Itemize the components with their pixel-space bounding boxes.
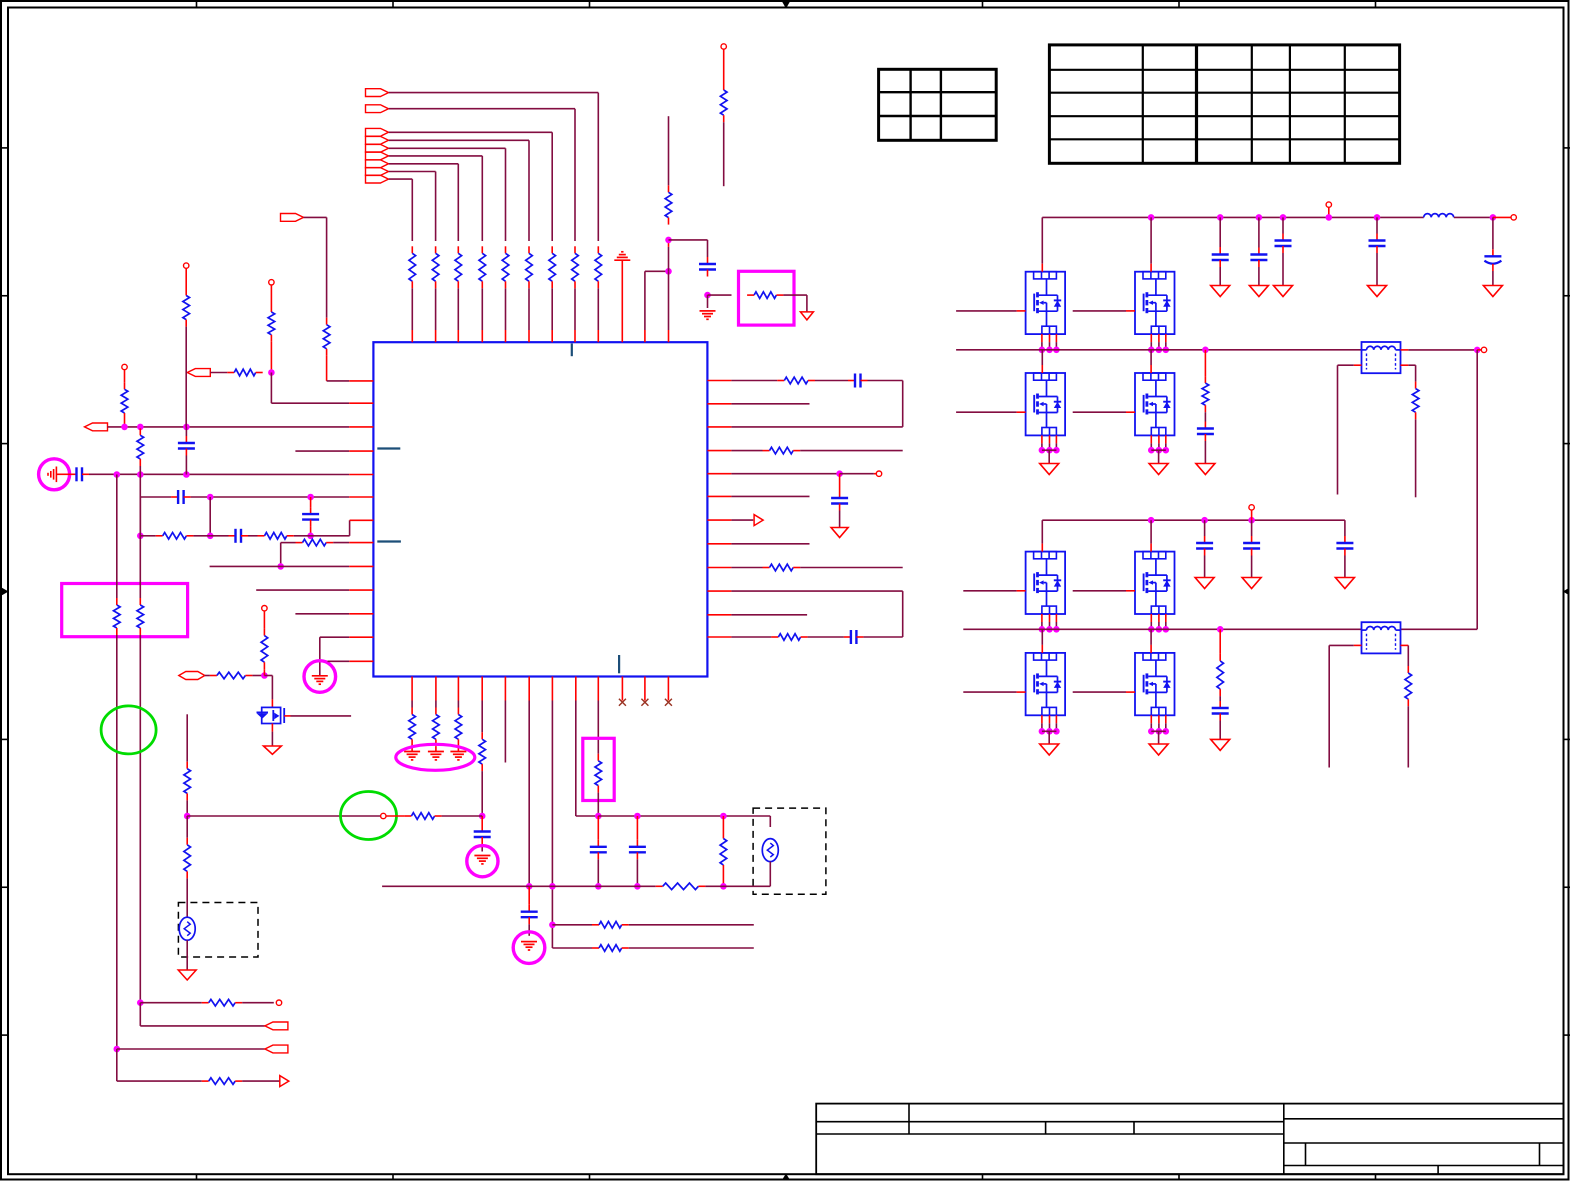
wire T1 right pin to node bbox=[1401, 349, 1409, 351]
wire node to TP11 bbox=[1477, 349, 1481, 351]
crystal Y2 bbox=[762, 839, 778, 862]
resistor R41 bbox=[186, 762, 188, 769]
node N junction bbox=[479, 813, 486, 820]
wire R27 to ground bbox=[435, 746, 437, 751]
ground GND15 (arrow) bbox=[1483, 286, 1502, 297]
crystal Y1 bbox=[179, 917, 195, 940]
node rail1 j4 bbox=[1280, 214, 1287, 221]
resistor R29 bbox=[481, 732, 483, 739]
wire R40 to node Z bbox=[263, 669, 265, 675]
wire Q10 source pins to ground bbox=[1150, 715, 1152, 723]
wire C19 to GND7 bbox=[481, 844, 483, 852]
capacitor C27 (polarized) bbox=[1484, 255, 1501, 257]
wire Q3 source pin bbox=[1049, 334, 1051, 342]
wire Q8 source pin bbox=[1158, 614, 1160, 622]
input flag J15 (hex) bbox=[179, 672, 205, 680]
resistor R16 bbox=[124, 382, 126, 389]
wire C18 to loop bbox=[863, 636, 902, 638]
wire x187 vertical top bbox=[186, 714, 188, 761]
transistor Q10 (power MOSFET) bbox=[1135, 653, 1175, 715]
node R10 bottom junction bbox=[665, 237, 672, 244]
node O junction bbox=[526, 883, 533, 890]
wire R46 to C32 bbox=[1219, 696, 1221, 701]
wire Q3 source pin bbox=[1041, 334, 1043, 342]
wire C31 to GND19 bbox=[1344, 556, 1346, 578]
resistor R15 bbox=[227, 372, 234, 374]
node F junction bbox=[137, 471, 144, 478]
wire resistor R5 to IC pin bbox=[505, 288, 507, 330]
input flag J5 bbox=[366, 144, 389, 152]
node J junction bbox=[137, 533, 144, 540]
wire Q7 source pin bbox=[1041, 614, 1043, 622]
wire Q8 source pin bbox=[1165, 614, 1167, 622]
wire flag J4 to column bbox=[389, 139, 529, 141]
highlight box (magenta) around R11 bbox=[739, 271, 795, 325]
resistor R35 bbox=[116, 598, 118, 605]
capacitor C25 bbox=[1282, 234, 1284, 241]
wire R11 to arrow bbox=[783, 294, 807, 296]
transistor Q4 (power MOSFET) bbox=[1135, 272, 1175, 334]
wire R23 right stub bbox=[800, 450, 903, 452]
wire TP8 to R42 bbox=[386, 815, 404, 817]
ground GND-Q10 (arrow) bbox=[1149, 744, 1168, 755]
input flag J6 bbox=[366, 152, 389, 160]
resistor R27 bbox=[435, 708, 437, 715]
wire TP3 to R16 bbox=[124, 370, 126, 383]
resistor R14 bbox=[270, 305, 272, 312]
wire R41 to node AA bbox=[186, 800, 188, 816]
wire IC pin B7 bbox=[551, 677, 553, 701]
resistor R43 bbox=[186, 838, 188, 845]
wire IC pin B8 bbox=[575, 677, 577, 701]
wire phase rail 1 bbox=[956, 349, 1361, 351]
ground GND19 (arrow) bbox=[1335, 578, 1354, 589]
transistor Q9 (power MOSFET) bbox=[1026, 653, 1066, 715]
resistor R39 bbox=[210, 675, 217, 677]
resistor R33 bbox=[722, 832, 724, 839]
wire C17 to GND3 bbox=[839, 511, 841, 528]
IC U1 inner tick left lower bbox=[377, 540, 401, 542]
wire IC pin R2 bbox=[707, 403, 731, 405]
resistor R20 bbox=[258, 535, 265, 537]
node V junction bbox=[720, 813, 727, 820]
resistor R6 (top pull) bbox=[481, 246, 483, 253]
green highlight circle 1 bbox=[101, 706, 156, 754]
resistor R23 bbox=[763, 450, 770, 452]
resistor R28 bbox=[457, 708, 459, 715]
wire node Z to Q2 drain bbox=[264, 675, 272, 677]
resistor R1 (top pull) bbox=[597, 246, 599, 253]
wire node Q row bbox=[552, 924, 592, 926]
resistor R2 (top pull) bbox=[574, 246, 576, 253]
test point TP5 bbox=[876, 471, 881, 476]
ground GND14 (arrow) bbox=[1368, 286, 1387, 297]
wire PWR1 to IC pin bbox=[621, 260, 623, 342]
node H junction bbox=[207, 494, 214, 501]
wire Q7 source pin bbox=[1049, 614, 1051, 622]
wire Q8 gate bbox=[1073, 590, 1126, 592]
wire TP4 to R18 bbox=[185, 268, 187, 288]
wire J15 to R39 bbox=[205, 675, 210, 677]
resistor R37 bbox=[202, 1002, 209, 1004]
capacitor C28 bbox=[1204, 422, 1206, 429]
wire C30 to GND18 bbox=[1251, 556, 1253, 578]
input flag J8 bbox=[366, 168, 389, 176]
node phase2 pin bbox=[1053, 626, 1060, 633]
resistor R40 bbox=[263, 629, 265, 636]
wire C26 to GND14 bbox=[1376, 253, 1378, 286]
node P junction bbox=[549, 883, 556, 890]
node C junction bbox=[137, 424, 144, 431]
wire TP10 stub bbox=[1328, 207, 1330, 217]
wire rail1 to C25 bbox=[1282, 217, 1284, 233]
wire C32 to GND20 bbox=[1219, 721, 1221, 740]
wire resistor R6 to IC pin bbox=[481, 288, 483, 330]
wire C13 to IC pin L6 bbox=[191, 496, 350, 498]
input flag J11 bbox=[187, 369, 210, 377]
resistor R18 bbox=[185, 289, 187, 296]
wire Q6 source pins to ground bbox=[1150, 435, 1152, 443]
power arrow PWR4 (down) bbox=[178, 970, 196, 980]
wire vertical col p6 bbox=[139, 497, 141, 536]
wire node AA to TP8 bbox=[187, 815, 380, 817]
capacitor C11 bbox=[185, 436, 187, 443]
ground GND18 (arrow) bbox=[1242, 578, 1261, 589]
wire crystal Y2 to row-886 bbox=[769, 862, 771, 887]
wire C10 junction to RT box bbox=[708, 294, 732, 296]
wire Q7 gate bbox=[963, 590, 1016, 592]
wire C11 to node G bbox=[185, 456, 187, 475]
wire Q3 gate bbox=[956, 310, 1017, 312]
wire IC pin L4 bbox=[295, 450, 349, 452]
wire C24 to GND12 bbox=[1258, 267, 1260, 286]
wire IC pin R11 bbox=[707, 614, 731, 616]
wire Q10 gate bbox=[1073, 691, 1126, 693]
wire IC pin R1 bbox=[707, 380, 731, 382]
wire R16 to node B bbox=[124, 420, 126, 427]
green highlight circle 2 bbox=[341, 792, 397, 840]
wire IC pin B3 bbox=[457, 677, 459, 701]
test point TP10 bbox=[1326, 202, 1331, 207]
wire node N to C19 bbox=[481, 816, 483, 825]
dashed box around crystal Y2 bbox=[753, 808, 826, 894]
wire phase1 to Q5 drain bbox=[1041, 350, 1043, 365]
IC U1 body bbox=[373, 342, 707, 676]
wire col1 lower bbox=[116, 635, 118, 1049]
resistor R12 bbox=[723, 83, 725, 90]
wire IC pin top-12 chain bbox=[668, 330, 670, 342]
wire T2 left lower pin bbox=[1354, 644, 1362, 646]
node Y junction bbox=[114, 1046, 121, 1053]
wire col1 to R38 bbox=[116, 1049, 118, 1081]
wire C21 to node S bbox=[597, 859, 599, 886]
wire Q9 gate bbox=[963, 691, 1016, 693]
capacitor C19 bbox=[481, 825, 483, 832]
wire C28 to GND16 bbox=[1204, 441, 1206, 464]
wire rail1 to Q3 drain bbox=[1041, 217, 1043, 263]
wire resistor R8 to IC pin bbox=[435, 288, 437, 330]
wire IC pin L12 bbox=[349, 636, 373, 638]
wire R47 down stub bbox=[1407, 706, 1409, 767]
node rail1 j3 bbox=[1256, 214, 1263, 221]
resistor R45 bbox=[1415, 382, 1417, 389]
wire rail1 to C24 bbox=[1258, 217, 1260, 247]
wire R42 to node N bbox=[442, 815, 483, 817]
wire G1 to C12 bbox=[56, 473, 69, 475]
input flag J1 bbox=[366, 89, 389, 97]
node X junction bbox=[137, 999, 144, 1006]
wire C16 loop to IC pin R3 bbox=[868, 380, 903, 382]
node VOUT1 junction bbox=[1490, 214, 1497, 221]
wire node M to TP5 bbox=[840, 473, 874, 475]
ground GND10 (signal) bbox=[707, 295, 709, 308]
ground GND16 (arrow) bbox=[1196, 464, 1215, 475]
wire flag J8 to column bbox=[389, 171, 436, 173]
node phase1 pin bbox=[1053, 347, 1060, 354]
wire IC pin B5 bbox=[504, 677, 506, 701]
resistor R42 bbox=[404, 815, 411, 817]
wire IC pin B1 bbox=[411, 677, 413, 701]
node AA junction bbox=[184, 813, 191, 820]
capacitor C18 (series) bbox=[844, 636, 851, 638]
input flag J14 bbox=[265, 1045, 288, 1053]
ground GND11 (arrow) bbox=[1211, 286, 1230, 297]
input flag J2 bbox=[366, 105, 389, 113]
wire R19 to H2 bbox=[193, 535, 210, 537]
wire node H down bbox=[209, 497, 211, 536]
transistor Q2 (small MOSFET) bbox=[262, 707, 281, 723]
node phase1 pin bbox=[1156, 347, 1163, 354]
no-connect pin B12 bbox=[667, 677, 669, 701]
transistor Q8 (power MOSFET) bbox=[1135, 552, 1175, 614]
wire R21 to IC pin L8 bbox=[333, 542, 349, 544]
wire Q2 gate bbox=[284, 715, 290, 717]
wire IC pin B6 bbox=[528, 677, 530, 701]
power symbol PWR1 (stacked bars) bbox=[614, 259, 630, 261]
transformer T2 bbox=[1362, 622, 1401, 653]
node phase1 pin bbox=[1039, 347, 1046, 354]
wire R26 to ground bbox=[411, 746, 413, 751]
wire Q4 source pin bbox=[1158, 334, 1160, 342]
wire C22 to node U bbox=[636, 859, 638, 886]
wire T1 right lower pin bbox=[1401, 364, 1409, 366]
output arrow symbol 2 bbox=[280, 1076, 289, 1087]
wire flag J1 to column bbox=[389, 92, 599, 94]
wire R19 left bbox=[140, 535, 155, 537]
input flag J10 bbox=[281, 214, 304, 222]
wire Q4 gate bbox=[1073, 310, 1126, 312]
wire p6 row left bbox=[140, 496, 171, 498]
wire J10 to R13 bbox=[304, 216, 327, 218]
resistor R44 bbox=[1204, 376, 1206, 383]
node K junction bbox=[307, 533, 314, 540]
resistor R38 bbox=[202, 1080, 209, 1082]
ground GND7 in magenta circle bbox=[467, 846, 498, 877]
capacitor C21 bbox=[597, 840, 599, 847]
wire IC pin R12 bbox=[707, 636, 731, 638]
wire IC pin L9 bbox=[210, 565, 350, 567]
wire rail1 to C26 bbox=[1376, 217, 1378, 233]
transistor Q3 (power MOSFET) bbox=[1026, 272, 1066, 334]
wire R13 to IC pin L1 bbox=[326, 356, 328, 381]
input flag J12 bbox=[85, 423, 108, 431]
wire R45 down stub bbox=[1415, 419, 1417, 497]
wire IC pin top-11 up bbox=[644, 330, 646, 342]
wire resistor R9 to IC pin bbox=[411, 288, 413, 330]
wire IC pin R10 loop top bbox=[707, 590, 731, 592]
test point TP11 bbox=[1481, 347, 1486, 352]
wire col2 to flag J13 bbox=[139, 1003, 141, 1026]
dashed box around crystal Y1 bbox=[178, 903, 258, 958]
resistor R3 (top pull) bbox=[551, 246, 553, 253]
resistor R8 (top pull) bbox=[435, 246, 437, 253]
test point TP1 bbox=[721, 44, 726, 49]
capacitor C20 bbox=[528, 905, 530, 912]
output arrow symbol bbox=[754, 515, 763, 526]
wire R34 to crystal branch bbox=[705, 885, 770, 887]
input flag J3 bbox=[366, 128, 389, 136]
highlight box (magenta) around R35 R36 bbox=[62, 584, 188, 637]
resistor R46 bbox=[1219, 654, 1221, 661]
resistor R32 bbox=[597, 754, 599, 761]
wire TP2 to R14 bbox=[270, 285, 272, 305]
wire phase1 to Q6 drain bbox=[1150, 350, 1152, 365]
wire IC pin L10 bbox=[256, 589, 349, 591]
wire crystal Y1 down bbox=[186, 940, 188, 970]
wire Q4 source pin bbox=[1150, 334, 1152, 342]
node phase1 pin bbox=[1163, 347, 1170, 354]
resistor R5 (top pull) bbox=[505, 246, 507, 253]
wire C20 to GND8 bbox=[528, 924, 530, 936]
wire R38 to arrow bbox=[242, 1080, 280, 1082]
capacitor C14 bbox=[310, 507, 312, 514]
transistor Q6 (power MOSFET) bbox=[1135, 373, 1175, 435]
wire R18 to node D bbox=[185, 327, 187, 427]
capacitor C15 (series) bbox=[229, 535, 236, 537]
wire VIN rail lower bbox=[1042, 519, 1345, 521]
capacitor C26 bbox=[1376, 234, 1378, 241]
capacitor C13 (series) bbox=[171, 496, 178, 498]
wire IC pin B9 bbox=[597, 677, 599, 701]
capacitor C32 bbox=[1219, 701, 1221, 708]
wire C12 to IC pin L5 bbox=[89, 473, 117, 475]
title block bbox=[816, 1104, 1563, 1175]
node M junction bbox=[836, 470, 843, 477]
node phase2 pin bbox=[1046, 626, 1053, 633]
wire junction to C10 bbox=[669, 239, 708, 241]
wire flag J6 to column bbox=[389, 155, 483, 157]
node Q junction bbox=[549, 922, 556, 929]
node A junction bbox=[268, 369, 275, 376]
node H2 junction bbox=[207, 533, 214, 540]
node G junction bbox=[183, 471, 190, 478]
resistor R4 (top pull) bbox=[528, 246, 530, 253]
wire R25 to C18 bbox=[808, 636, 844, 638]
wire C25 to GND13 bbox=[1282, 253, 1284, 286]
wire rail2 to C30 bbox=[1251, 520, 1253, 536]
wire IC pin R8 bbox=[707, 543, 731, 545]
resistor R7 (top pull) bbox=[457, 246, 459, 253]
wire TP1 to R12 bbox=[723, 49, 725, 83]
wire TP7 to R40 bbox=[263, 611, 265, 629]
wire R37 to TP6 bbox=[242, 1002, 274, 1004]
wire R24 right stub bbox=[800, 567, 903, 569]
chassis ground G1 in magenta circle bbox=[39, 459, 70, 490]
node phase2 snubber junction bbox=[1217, 626, 1224, 633]
node phase2 pin bbox=[1156, 626, 1163, 633]
resistor R10 bbox=[668, 185, 670, 192]
wire Q9 source pins to ground bbox=[1041, 715, 1043, 723]
node U junction bbox=[634, 883, 641, 890]
node S junction bbox=[595, 883, 602, 890]
node rail1 j5 bbox=[1326, 214, 1333, 221]
wire T2 right lower pin bbox=[1401, 644, 1409, 646]
wire resistor R4 to IC pin bbox=[528, 288, 530, 330]
test point TP12 bbox=[1249, 505, 1254, 510]
border zone tick marks bbox=[196, 1, 198, 9]
wire R30 right long bbox=[629, 924, 754, 926]
wire Q5 source pins to ground bbox=[1041, 435, 1043, 443]
wire R31 right long bbox=[629, 947, 754, 949]
wire resistor R2 to IC pin bbox=[574, 288, 576, 330]
wire node A to IC pin L2 bbox=[270, 373, 272, 404]
node rail1 j2 bbox=[1217, 214, 1224, 221]
resistor R9 (top pull) bbox=[411, 246, 413, 253]
wire R29 to node N bbox=[481, 771, 483, 816]
ground GND13 (arrow) bbox=[1274, 286, 1293, 297]
ground GND2 in magenta circle bbox=[304, 661, 336, 693]
wire IC pin R4 bbox=[707, 450, 731, 452]
large revision history table bbox=[1049, 45, 1399, 163]
wire IC pin L11 bbox=[295, 613, 349, 615]
wire node Y to flag J14 bbox=[117, 1048, 265, 1050]
resistor R26 bbox=[411, 708, 413, 715]
wire phase rail 2 bbox=[963, 628, 1361, 630]
node phase2 pin bbox=[1163, 626, 1170, 633]
wire TP12 stub bbox=[1251, 510, 1253, 520]
wire flag J3 to column bbox=[389, 131, 553, 133]
ground GND12 (arrow) bbox=[1249, 286, 1268, 297]
capacitor C29 bbox=[1204, 536, 1206, 543]
resistor R13 bbox=[326, 318, 328, 325]
wire rail2 to C31 bbox=[1344, 520, 1346, 536]
wire resistor R3 to IC pin bbox=[551, 288, 553, 330]
small revision table bbox=[879, 69, 997, 140]
wire K to IC pin L7 jog bbox=[311, 535, 350, 537]
wire phase1 node to phase2 link bbox=[1476, 350, 1478, 629]
node D junction bbox=[183, 424, 190, 431]
wire IC pin B2 bbox=[435, 677, 437, 701]
resistor R17 bbox=[139, 428, 141, 435]
IC U1 inner tick left upper bbox=[377, 447, 400, 449]
wire phase2 to Q9 drain bbox=[1041, 629, 1043, 645]
wire Q2 source to PWR3 bbox=[271, 724, 273, 732]
wire node AA down bbox=[186, 816, 188, 838]
wire J12 to IC pin L3 bbox=[108, 426, 350, 428]
wire flag J5 to column bbox=[389, 147, 506, 149]
wire IC pin R6 bbox=[707, 495, 731, 497]
wire Q4 source pin bbox=[1165, 334, 1167, 342]
ground GND6 (signal) bbox=[450, 751, 466, 753]
node phase1 snubber junction bbox=[1202, 347, 1209, 354]
input flag J9 bbox=[366, 175, 389, 183]
wire R33 to node W bbox=[722, 872, 724, 886]
ground GND17 (arrow) bbox=[1195, 578, 1214, 589]
wire rail2 to Q7 drain bbox=[1041, 520, 1043, 543]
wire col1 upper bbox=[116, 475, 118, 599]
wire R39 to node Z bbox=[252, 675, 264, 677]
wire phase1 to R44 bbox=[1204, 350, 1206, 376]
